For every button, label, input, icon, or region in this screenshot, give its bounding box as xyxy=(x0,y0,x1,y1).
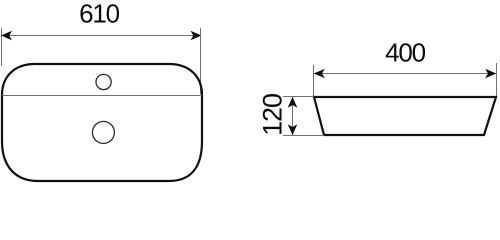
svg-text:120: 120 xyxy=(258,94,288,136)
extension line right of 610 dimension xyxy=(200,28,202,94)
extension line right of 400 dimension xyxy=(496,63,498,97)
arrowhead bottom of 120 dimension xyxy=(288,124,298,135)
rim line xyxy=(2,95,202,97)
arrowhead left of 610 dimension xyxy=(1,31,12,41)
arrowhead right of 610 dimension xyxy=(191,31,202,41)
dimension line 610 xyxy=(2,35,201,37)
extension line left of 610 dimension xyxy=(1,28,3,66)
basin outline (top view) xyxy=(2,64,202,181)
extension line left of 400 dimension xyxy=(313,65,315,96)
svg-text:610: 610 xyxy=(79,0,120,29)
dimension line 400 xyxy=(314,73,496,75)
drain hole xyxy=(92,121,114,143)
extension line top of 120 dimension xyxy=(283,96,314,98)
dimension line 120 xyxy=(292,97,294,135)
arrowhead top of 120 dimension xyxy=(288,97,298,108)
arrowhead right of 400 dimension xyxy=(485,69,496,79)
faucet hole xyxy=(96,74,111,89)
extension line bottom of 120 dimension xyxy=(283,135,324,137)
svg-text:400: 400 xyxy=(385,38,426,68)
basin side view (trapezoid) xyxy=(314,97,496,135)
arrowhead left of 400 dimension xyxy=(314,69,325,79)
